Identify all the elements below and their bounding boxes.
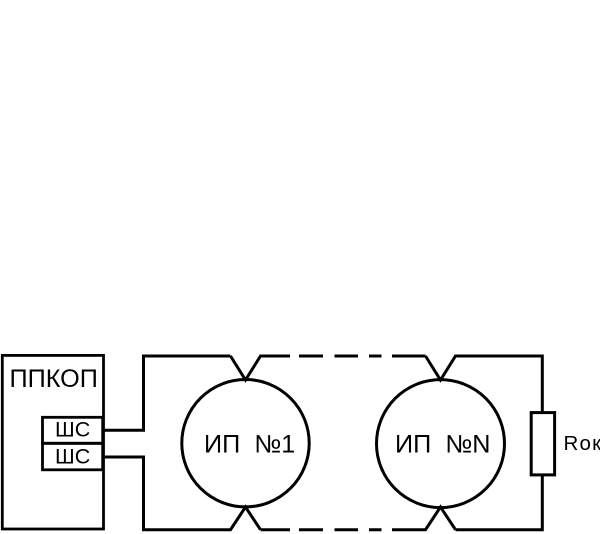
terminal box ШС (upper): [43, 417, 103, 443]
node A: top V-connection of detector ИП №1: [231, 356, 291, 380]
detector ИП №N: [377, 380, 505, 508]
node B: top V-connection of detector ИП №N: [426, 356, 543, 413]
wire: bottom rail to node C: [261, 528, 291, 531]
svg-text:ИП №N: ИП №N: [395, 431, 490, 459]
svg-text:Rок: Rок: [564, 432, 600, 455]
wire: dashed continuation (top rail): [299, 355, 382, 358]
terminal box ШС (lower): [43, 443, 103, 470]
svg-text:ППКОП: ППКОП: [10, 365, 98, 393]
node C: bottom V-connection of detector ИП №1: [104, 457, 261, 530]
panel ППКОП: [2, 355, 103, 529]
wire: resistor bottom down to bottom rail, left to node D: [456, 475, 543, 530]
svg-text:ИП №1: ИП №1: [204, 431, 295, 459]
svg-text:ШС: ШС: [55, 417, 90, 441]
svg-text:ШС: ШС: [55, 444, 90, 468]
wire: upper ШС to loop left, up left side, top rail to node A: [104, 356, 231, 430]
wire: dashed continuation (bottom rail): [299, 528, 382, 531]
node D: bottom V-connection of detector ИП №N: [392, 507, 456, 530]
resistor Rок (end-of-line): [531, 413, 554, 475]
wire: top rail to node B: [392, 355, 426, 358]
detector ИП №1: [182, 380, 309, 507]
